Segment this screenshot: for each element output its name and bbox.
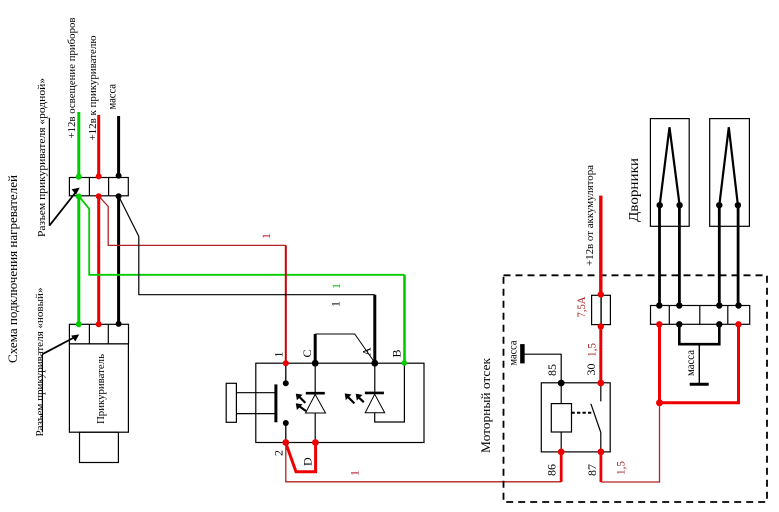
svg-text:А: А xyxy=(360,347,374,356)
LED D2 emission arrow 1 xyxy=(348,397,354,403)
wiper connector J3: 4-cell box xyxy=(651,306,750,325)
svg-text:Разъем прикуривателя «родной»: Разъем прикуривателя «родной» xyxy=(37,78,48,237)
svg-text:1: 1 xyxy=(348,470,362,476)
relay K1 contact: pin 30 stub xyxy=(600,383,602,401)
U1 push-button cap xyxy=(226,383,236,422)
LED D1 emission arrow 1 xyxy=(299,397,305,403)
U1 lower fixed contact (pin 2 side) xyxy=(285,423,287,443)
svg-text:7,5А: 7,5А xyxy=(574,296,588,317)
svg-text:масса: масса xyxy=(506,340,520,366)
connector J1 «родной»: 3-cell box xyxy=(69,178,128,196)
wire: W2 lead 1 to J3 xyxy=(718,205,721,305)
wire: black drop into pin A xyxy=(373,295,376,363)
J3 pin 4 bottom dot (red) xyxy=(735,321,741,327)
wire: fuse to relay pin 30 (red) xyxy=(599,327,602,384)
J3 pin 1 bottom dot (red) xyxy=(656,321,662,327)
svg-text:Дворники: Дворники xyxy=(627,157,642,222)
svg-text:86: 86 xyxy=(545,464,559,476)
svg-text:85: 85 xyxy=(545,364,559,376)
svg-text:1: 1 xyxy=(259,233,273,239)
LED D1 triangle xyxy=(306,394,326,413)
svg-text:+12в от аккумулятора: +12в от аккумулятора xyxy=(585,165,596,266)
wire: thin black branch J1 to switch pin A xyxy=(119,196,375,295)
svg-text:1,5: 1,5 xyxy=(614,461,628,475)
J3 pin 3 bottom dot xyxy=(716,321,722,327)
wire: +12v from battery (red) xyxy=(599,196,602,296)
wiper W1 terminal dots xyxy=(657,202,663,208)
svg-text:1: 1 xyxy=(329,283,343,289)
svg-text:30: 30 xyxy=(584,364,598,376)
wire: +12v lighter feed into J1 pin 2 (red) xyxy=(97,115,100,178)
fuse F1 bottom dot xyxy=(598,323,604,329)
J1 pin 3 top junction dot (black) xyxy=(116,173,122,179)
J3 pin 2 top dot xyxy=(676,302,682,308)
leader arrow to connector J1 xyxy=(49,118,75,226)
J1 pin 1 top junction dot (green) xyxy=(76,174,82,180)
fuse F1 top dot xyxy=(598,291,604,297)
LED D1 cathode bar xyxy=(306,392,325,395)
U1 pin D dot xyxy=(312,439,319,446)
U1 pin B dot xyxy=(402,360,408,366)
svg-text:C: C xyxy=(300,349,314,357)
fuse F1 body xyxy=(592,295,611,324)
J2 pin 2 dot (red) xyxy=(96,321,102,327)
wire: +12v lighting feed into J1 pin 1 (green) xyxy=(77,112,80,178)
wire: thin green branch J1 to switch pin B xyxy=(79,196,405,275)
wire: W1 lead 2 to J3 xyxy=(678,205,681,305)
LED D2 cathode bar xyxy=(365,392,384,395)
svg-text:1: 1 xyxy=(272,352,286,358)
svg-text:D: D xyxy=(301,457,315,466)
wire: bracket to wiper ground xyxy=(698,344,700,384)
LED D1 anode lead (pin D side) xyxy=(314,413,316,443)
wire: relay pin 86 down (red) xyxy=(560,452,563,482)
dashed boundary: Моторный отсек xyxy=(504,275,768,502)
ground bar (relay side) xyxy=(520,344,525,363)
relay K1 coil xyxy=(551,404,571,432)
wire: thin red branch J1 to switch pin 1 xyxy=(99,196,286,245)
relay pin 86 dot xyxy=(558,449,565,456)
wire: red J1 to J2 xyxy=(97,196,100,324)
wire: jumper pin C to pin A xyxy=(314,334,317,363)
wire: red drop into pin 1 xyxy=(285,245,287,363)
switch module U1: outer box xyxy=(256,363,424,442)
wiper W2 box xyxy=(710,119,750,227)
LED D1 emission arrow 2 xyxy=(299,406,306,411)
cigarette lighter body xyxy=(69,344,128,432)
svg-text:масса: масса xyxy=(683,349,697,376)
ground bar (wiper side) xyxy=(690,383,709,386)
wire: thick red jumper pin 2 to pin D xyxy=(286,443,316,472)
fuse F1 element xyxy=(600,295,602,324)
U1 upper fixed contact (pin 1 side) xyxy=(285,363,287,383)
U1 pin C dot xyxy=(312,360,319,367)
relay pin 87 dot xyxy=(598,449,605,456)
svg-text:2: 2 xyxy=(272,450,286,456)
J1 pin 2 top junction dot (red) xyxy=(96,173,102,179)
node: red bus junction dot xyxy=(656,399,663,406)
svg-text:масса: масса xyxy=(105,83,119,109)
svg-text:1: 1 xyxy=(329,301,343,307)
U1 pin A dot xyxy=(371,360,378,367)
wire: green drop into pin B xyxy=(403,275,406,363)
relay K1 box xyxy=(541,383,610,452)
svg-text:Моторный отсек: Моторный отсек xyxy=(479,357,493,453)
U1 pin 2 dot xyxy=(282,439,289,446)
relay pin 30 dot xyxy=(597,380,604,387)
wire: W1 lead 1 to J3 xyxy=(658,205,661,305)
wire: black J1 to J2 xyxy=(117,196,120,324)
J3 pin 1 top dot xyxy=(656,302,662,308)
wire: W2 lead 2 to J3 xyxy=(737,205,740,305)
wiper W2 terminal dots xyxy=(716,202,722,208)
wiper W1 heater element xyxy=(660,127,680,205)
J3 pin 4 top dot xyxy=(735,302,741,308)
J1 pin 3 bottom junction dot (black) xyxy=(116,193,122,199)
wire: thin red pin 87 to bus junction xyxy=(601,403,660,482)
svg-text:B: B xyxy=(390,349,404,357)
LED D2 triangle xyxy=(365,394,385,413)
LED D2 emission arrow 2 xyxy=(358,397,364,402)
svg-text:+12в освещение приборов: +12в освещение приборов xyxy=(67,17,78,138)
connector J2 «новый»: 3-cell box xyxy=(69,324,128,344)
wire: thin red pin 2 to relay pin 86 xyxy=(286,443,561,482)
cigarette lighter base xyxy=(80,432,119,462)
wiper W2 heater element xyxy=(719,127,738,205)
svg-text:Прикуриватель: Прикуриватель xyxy=(95,354,107,424)
relay K1 contact blade xyxy=(591,404,601,433)
wire: green J1 to J2 xyxy=(77,196,80,324)
LED D2 anode wire to pin B xyxy=(375,363,405,422)
J1 pin 2 bottom junction dot (red) xyxy=(96,193,102,199)
relay pin 85 dot xyxy=(558,380,565,387)
U1 pin 1 dot xyxy=(283,360,289,366)
wire: ground feed into J1 pin 3 (black) xyxy=(117,116,120,178)
J2 pin 3 dot (black) xyxy=(116,321,122,327)
J3 pin 3 top dot xyxy=(716,302,722,308)
relay K1 actuation dashed link xyxy=(572,412,592,414)
wire: relay pin 87 down (red) xyxy=(600,452,603,482)
J3 pin 2 bottom dot xyxy=(676,321,682,327)
wire: thick red bus to wiper connector J3 xyxy=(660,324,739,403)
LED D1 cathode lead (pin C side) xyxy=(314,363,316,392)
wire: relay pin 85 to ground xyxy=(523,354,561,383)
svg-text:Схема подключения нагревателей: Схема подключения нагревателей xyxy=(5,175,20,363)
J2 pin 1 dot (green) xyxy=(76,321,82,327)
U1 movable contact bar xyxy=(274,384,277,422)
J1 pin 1 bottom junction dot (green) xyxy=(76,194,82,200)
U1 push-button stem xyxy=(236,392,275,394)
wiper W1 box xyxy=(650,119,689,227)
LED D2 cathode lead (pin A side) xyxy=(374,363,376,392)
leader arrow to connector J2 xyxy=(42,337,75,432)
svg-text:87: 87 xyxy=(585,464,599,476)
svg-text:1,5: 1,5 xyxy=(585,343,599,357)
svg-text:Разъем прикуривателя «новый»: Разъем прикуривателя «новый» xyxy=(35,288,46,437)
wire: ground bracket joining J3 pins 2 and 3 xyxy=(679,324,719,344)
